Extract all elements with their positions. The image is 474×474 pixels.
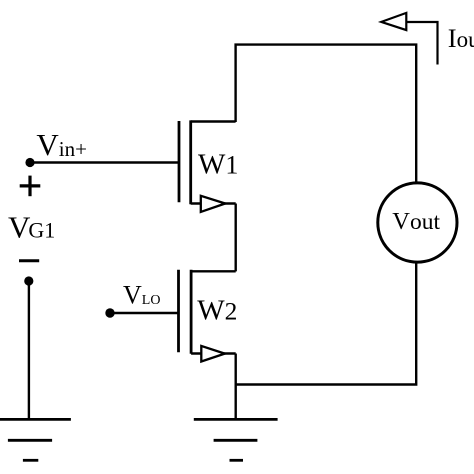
ground (left) [0,419,71,460]
voltmeter Vout [378,183,457,262]
W1 source arrow [201,196,225,212]
svg-text:VLO: VLO [123,281,160,310]
svg-text:Vin+: Vin+ [36,127,87,162]
wire VLO to W2 gate [110,312,179,314]
svg-text:Iout: Iout [448,23,474,53]
wire voltmeter to bottom rail [236,262,417,385]
svg-text:Vout: Vout [392,208,440,235]
W2 source arrow [201,346,225,362]
Iout arrow shaft [407,22,438,65]
wire Vin+ to W1 gate [30,161,179,163]
transistor W2 [179,270,236,362]
svg-text:W1: W1 [198,149,238,181]
W1 source lead [191,202,236,204]
wire W2 source to ground [234,354,236,420]
minus sign of VG1 [19,259,39,262]
wire VG1 to ground [28,281,30,419]
node dot Vin+ [25,158,34,167]
W2 channel bar [190,270,193,354]
W2 source lead [191,352,236,354]
transistor W1 [179,120,236,211]
W1 gate bar [178,121,181,202]
node dot VLO [105,308,114,317]
Iout arrowhead [381,13,406,30]
svg-text:W2: W2 [197,295,237,327]
W2 drain lead [191,270,236,272]
wire W1 source to W2 drain [234,204,236,272]
W1 drain lead [191,120,236,122]
W2 gate bar [177,270,180,352]
plus sign of VG1 [20,176,41,197]
svg-text:VG1: VG1 [8,210,55,245]
node dot VG1 [24,276,33,285]
ground (middle) [194,419,278,460]
W1 channel bar [189,120,192,204]
wire W1 drain to top rail to voltmeter [236,45,417,184]
